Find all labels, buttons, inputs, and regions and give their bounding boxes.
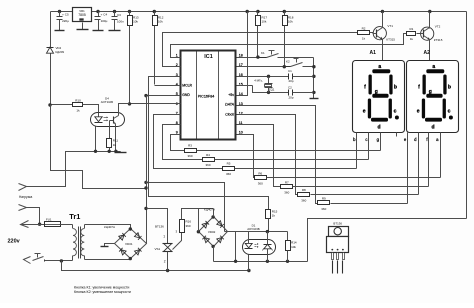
- wire VD02 left: [198, 209, 200, 232]
- svg-text:+: +: [101, 13, 103, 17]
- wire pin8 to R4: [163, 125, 203, 160]
- svg-text:c: c: [394, 108, 397, 114]
- wire pin16 row: [237, 75, 289, 78]
- svg-text:R3: R3: [188, 144, 192, 148]
- wire row b: [235, 168, 357, 170]
- svg-text:КТ315: КТ315: [434, 38, 443, 42]
- wire pin9 to R3: [171, 135, 185, 151]
- svg-text:10k: 10k: [291, 245, 296, 249]
- crystal ZQ1: [254, 77, 275, 93]
- svg-text:Кнопка К1: увеличение мощност: Кнопка К1: увеличение мощности: [74, 285, 129, 289]
- svg-text:BT136: BT136: [155, 225, 164, 229]
- wire load2 down: [27, 208, 42, 226]
- svg-text:e: e: [363, 108, 366, 114]
- wire LED cathode to load: [27, 150, 98, 187]
- svg-text:a: a: [432, 64, 435, 70]
- svg-text:g: g: [375, 89, 378, 95]
- wire zero-cross node: [48, 103, 72, 106]
- svg-text:R6: R6: [258, 171, 262, 175]
- wire R10 to opto: [83, 105, 99, 113]
- wire row c: [215, 159, 369, 161]
- svg-text:1k: 1k: [113, 143, 117, 147]
- display A1: [353, 50, 405, 132]
- bridge rectifier VD02: [197, 208, 228, 248]
- wire +V top rail: [51, 11, 467, 13]
- label 220v: [8, 238, 21, 244]
- svg-text:d: d: [431, 125, 434, 131]
- wire pin18 row: [237, 55, 260, 58]
- svg-text:КТ315: КТ315: [386, 38, 395, 42]
- resistor R13: [128, 12, 139, 104]
- wire triac gate: [173, 233, 182, 250]
- ground opto D4: [115, 152, 127, 153]
- wire K ground bus: [310, 58, 319, 99]
- opto D1 AOU103: [243, 223, 276, 270]
- node junctions on top rail: [58, 10, 432, 13]
- resistor R11: [107, 139, 119, 148]
- wire row f: [293, 186, 429, 188]
- wire display segment drops: [353, 133, 440, 204]
- capacitor C3: [109, 12, 125, 31]
- wire to triac VS1: [147, 209, 168, 244]
- svg-text:b: b: [448, 84, 451, 90]
- svg-text:360: 360: [186, 224, 191, 228]
- svg-text:VT1: VT1: [387, 24, 393, 28]
- button K1: [260, 51, 314, 58]
- svg-text:100n: 100n: [117, 20, 124, 24]
- resistor R8: [298, 188, 310, 202]
- svg-text:R9: R9: [322, 197, 326, 201]
- display A2: [407, 50, 459, 132]
- svg-text:VT2: VT2: [435, 25, 441, 29]
- wire VT2 collector: [429, 12, 431, 29]
- wire row e: [331, 203, 408, 205]
- wire R16 top: [182, 209, 214, 220]
- svg-text:20p: 20p: [289, 79, 294, 83]
- fuse FU1: [45, 217, 61, 226]
- svg-text:DATA: DATA: [225, 103, 234, 107]
- wire pin17 row: [237, 65, 286, 68]
- wire bus up right: [308, 219, 467, 262]
- resistor R16: [180, 220, 192, 233]
- resistor R2: [358, 26, 370, 40]
- resistor R18 pullup: [283, 12, 294, 67]
- svg-text:360: 360: [284, 191, 289, 195]
- svg-text:VS1: VS1: [155, 247, 161, 251]
- svg-text:2: 2: [164, 260, 166, 264]
- svg-text:R4: R4: [206, 153, 210, 157]
- svg-text:IC1: IC1: [204, 54, 212, 60]
- svg-text:MCLR: MCLR: [182, 83, 192, 87]
- svg-text:1k: 1k: [272, 214, 276, 218]
- svg-text:10k: 10k: [288, 20, 293, 24]
- svg-text:Tr1: Tr1: [69, 212, 80, 221]
- svg-text:10k: 10k: [262, 20, 267, 24]
- resistor R9: [318, 197, 330, 211]
- svg-text:360: 360: [258, 182, 263, 186]
- svg-text:K1: K1: [261, 51, 265, 55]
- ground VD01 minus: [101, 244, 115, 247]
- resistor R3: [185, 144, 197, 158]
- bridge rectifier VD01: [104, 225, 147, 260]
- wire Tr1 secondary bottom: [85, 259, 131, 260]
- svg-text:7805: 7805: [78, 13, 86, 17]
- resistor R1: [407, 27, 416, 41]
- wire emitter node: [96, 148, 121, 154]
- svg-text:10k: 10k: [158, 20, 163, 24]
- svg-text:1k: 1k: [362, 37, 366, 41]
- svg-text:FU1: FU1: [46, 217, 52, 221]
- svg-text:BT136: BT136: [333, 221, 342, 225]
- wire opto D4 collector: [119, 104, 130, 113]
- resistor R5: [223, 162, 235, 176]
- terminal load 2: [19, 205, 27, 211]
- svg-text:d: d: [377, 125, 380, 131]
- capacitor C5: [55, 12, 70, 31]
- caption buttons: [74, 285, 131, 294]
- resistor R4: [203, 153, 215, 167]
- wire pin12 to R8: [237, 115, 298, 195]
- svg-text:220v: 220v: [8, 238, 21, 244]
- wire right bus: [466, 12, 468, 219]
- svg-text:360: 360: [205, 163, 210, 167]
- wire VD02 top: [213, 209, 215, 217]
- svg-text:GND: GND: [182, 93, 190, 97]
- wire 220v to fuse: [21, 224, 45, 226]
- svg-text:R2: R2: [362, 26, 366, 30]
- button K2: [285, 59, 314, 67]
- svg-text:Clock: Clock: [225, 112, 234, 116]
- wire VT2 emitter: [429, 40, 431, 61]
- wire pin15 row: [237, 86, 289, 95]
- wire opto D4 pins down: [96, 127, 116, 152]
- wire row a: [267, 177, 441, 179]
- svg-text:g: g: [429, 89, 432, 95]
- wire VT1 emitter: [382, 40, 384, 61]
- wire switch to Tr1: [45, 259, 73, 262]
- capacitor C1: [288, 69, 314, 83]
- svg-text:R10: R10: [75, 98, 81, 102]
- transistor VT1: [370, 24, 396, 41]
- svg-text:A2: A2: [424, 50, 431, 56]
- resistor R7: [281, 180, 293, 194]
- terminal load 1: [19, 184, 27, 191]
- wire D1 top node: [225, 230, 288, 233]
- capacitor C4: [93, 12, 108, 31]
- transformer Tr1: [69, 212, 84, 261]
- wire bottom rail drop: [62, 261, 251, 273]
- resistor R14: [286, 232, 297, 262]
- wire Tr1 secondary top: [85, 225, 131, 229]
- wire pin10 to R6: [237, 135, 255, 178]
- svg-text:+5v: +5v: [228, 93, 234, 97]
- wire pin7 to R5: [154, 115, 223, 169]
- svg-text:R1: R1: [409, 27, 413, 31]
- resistor R12: [153, 12, 164, 85]
- transistor VT2: [417, 25, 443, 42]
- wire pin5 stub: [144, 94, 180, 97]
- wire VT1 collector: [382, 12, 384, 28]
- svg-text:1k: 1k: [76, 109, 80, 113]
- package BT136 TO-220: [327, 221, 349, 273]
- wire pin6 from opto D4: [128, 102, 181, 105]
- svg-text:360: 360: [226, 172, 231, 176]
- svg-text:АОУ103Б: АОУ103Б: [247, 227, 260, 231]
- triac VS1: [155, 225, 178, 271]
- resistor R10: [73, 98, 83, 112]
- svg-text:20p: 20p: [289, 96, 294, 100]
- svg-text:Кнопка К2: уменьшение мощност: Кнопка К2: уменьшение мощности: [74, 290, 131, 294]
- svg-text:C5: C5: [65, 13, 69, 17]
- svg-text:+: +: [62, 13, 64, 17]
- svg-text:АОТ110Б: АОТ110Б: [101, 100, 113, 104]
- svg-text:360: 360: [321, 207, 326, 211]
- wire raw DC to opto D1: [144, 181, 224, 232]
- IC U1 PIC16F84 box: [181, 51, 236, 140]
- svg-text:360: 360: [187, 154, 192, 158]
- svg-text:K2: K2: [286, 60, 290, 64]
- svg-text:360: 360: [301, 198, 306, 202]
- wire pin1 loop to R1: [171, 34, 407, 58]
- resistor R6: [255, 171, 267, 185]
- svg-text:10k: 10k: [133, 20, 138, 24]
- svg-text:b: b: [394, 84, 397, 90]
- wire pin11 to R7: [237, 125, 281, 187]
- opto D4 AOT110: [91, 96, 125, 126]
- regulator VR1 7805: [73, 8, 92, 30]
- wire pin4 MCLR stub: [155, 85, 181, 87]
- svg-text:R7: R7: [285, 180, 289, 184]
- wire VD02 right: [228, 232, 236, 262]
- svg-text:1: 1: [163, 235, 165, 239]
- svg-text:100µ: 100µ: [101, 19, 108, 23]
- svg-text:PIC16F84: PIC16F84: [198, 94, 215, 98]
- svg-text:ZQ1: ZQ1: [269, 88, 275, 92]
- terminal 220v line: [21, 221, 29, 228]
- svg-text:220µ: 220µ: [62, 19, 69, 23]
- svg-text:e: e: [417, 108, 420, 114]
- svg-text:a: a: [378, 64, 381, 70]
- svg-text:VD01: VD01: [125, 242, 133, 246]
- wire lower bus: [214, 260, 308, 263]
- svg-text:C2: C2: [288, 86, 292, 90]
- capacitor C2: [288, 86, 314, 100]
- wire pin2 to VT1 base (wire A): [163, 33, 358, 67]
- wire VD02 bottom: [213, 247, 215, 262]
- svg-text:4 МГц: 4 МГц: [254, 78, 262, 82]
- svg-text:КЦ407А: КЦ407А: [104, 225, 115, 229]
- svg-text:VD02: VD02: [208, 230, 216, 234]
- wire row d: [311, 194, 419, 196]
- diode VD4: [47, 12, 65, 105]
- wire +5v pin14: [237, 12, 248, 96]
- wire pin3 to R15: [149, 77, 269, 210]
- wire row g: [197, 150, 381, 152]
- switch SA1: [24, 254, 45, 264]
- wire raw DC staircase: [51, 96, 148, 244]
- svg-text:R5: R5: [227, 162, 231, 166]
- label load: [19, 195, 32, 199]
- svg-text:c: c: [365, 137, 367, 142]
- svg-text:1k: 1k: [410, 37, 414, 41]
- wire pin13 to R9: [237, 106, 318, 204]
- svg-text:c: c: [448, 108, 451, 114]
- resistor R17 pullup: [256, 12, 268, 58]
- svg-text:R8: R8: [302, 188, 306, 192]
- svg-text:Нагрузка: Нагрузка: [19, 195, 32, 199]
- svg-text:A1: A1: [370, 50, 377, 56]
- IC1 pin numbers: [176, 54, 243, 135]
- svg-text:C1: C1: [288, 69, 292, 73]
- svg-text:C4: C4: [103, 13, 107, 17]
- svg-text:КД209: КД209: [56, 50, 65, 54]
- wire fuse to Tr1: [60, 224, 73, 226]
- svg-text:C3: C3: [117, 13, 121, 17]
- resistor R15: [266, 210, 278, 232]
